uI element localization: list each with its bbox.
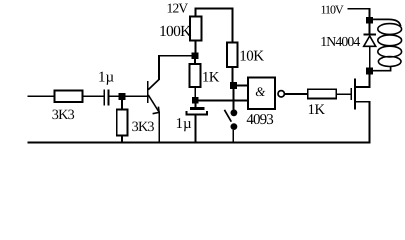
relay coil loop 1 — [378, 24, 402, 35]
svg-text:&: & — [255, 84, 266, 99]
node C junction dot — [230, 82, 237, 89]
wire 10K to node C — [232, 67, 234, 83]
wire node E to diode cathode — [369, 24, 371, 35]
svg-text:10K: 10K — [239, 49, 264, 65]
wire node C down to switch — [233, 89, 235, 110]
wire collector up — [158, 55, 160, 80]
resistor 3K3 horizontal — [55, 91, 83, 103]
ground rail bottom — [28, 142, 371, 144]
wire node B to 1K — [194, 59, 196, 64]
wire down to node E — [369, 9, 371, 20]
MOSFET Q2 gate bar — [350, 88, 352, 100]
svg-text:3K3: 3K3 — [52, 107, 75, 123]
diode D1 triangle — [364, 36, 376, 46]
wire capacitor to base — [110, 95, 148, 97]
wire drain up to relay — [369, 71, 371, 87]
NAND gate U1 4093 body — [248, 77, 275, 109]
wire 3K3v to rail — [121, 136, 123, 143]
wire 12V supply rail — [195, 8, 234, 10]
transistor Q1 collector — [148, 79, 159, 89]
relay coil exit wire — [372, 66, 391, 71]
MOSFET Q2 drain tap — [355, 86, 370, 88]
relay coil loop 3 — [378, 46, 402, 57]
switch S1 lever — [224, 110, 231, 122]
capacitor C2 bottom cup plate — [187, 111, 207, 115]
NAND output inverter bubble — [278, 91, 284, 97]
svg-text:100K: 100K — [159, 23, 192, 40]
wire switch to rail — [232, 130, 234, 143]
wire 1K to node D — [194, 87, 196, 98]
resistor 100K — [190, 17, 202, 41]
wire 12V corner down to 10K — [232, 9, 234, 43]
svg-text:12V: 12V — [167, 0, 189, 15]
wire node C to gate input 1 — [234, 85, 249, 87]
wire 1K to MOSFET gate — [336, 93, 352, 95]
svg-text:1K: 1K — [202, 69, 220, 85]
wire node D to gate input 2 — [195, 99, 248, 101]
relay coil loop 4 — [378, 57, 401, 67]
wire node D to capacitor C2 — [195, 104, 197, 108]
node B junction dot — [192, 52, 199, 59]
wire source down to rail — [369, 102, 371, 144]
svg-text:1µ: 1µ — [176, 116, 193, 132]
wire 110V to relay — [348, 8, 371, 10]
capacitor C2 1u top plate — [190, 107, 204, 110]
diode D1 1N4004 cathode bar — [364, 34, 377, 36]
wire node A down — [121, 99, 123, 110]
wire 3K3 to capacitor — [83, 95, 104, 97]
svg-text:110V: 110V — [321, 3, 345, 17]
switch S1 top contact — [231, 109, 238, 116]
wire gate output to 1K — [285, 93, 308, 95]
MOSFET Q2 source tap — [355, 101, 370, 103]
relay coil loop 2 — [378, 35, 402, 46]
resistor 1K vertical — [190, 64, 201, 87]
transistor Q1 base bar — [147, 81, 149, 103]
svg-text:1N4004: 1N4004 — [320, 34, 360, 49]
capacitor C1 1u plates — [103, 90, 109, 106]
svg-text:1µ: 1µ — [98, 70, 115, 86]
wire C2 to rail — [195, 115, 197, 142]
wire 100K to node B — [195, 41, 197, 54]
wire 12V to 100K — [195, 9, 197, 17]
node E junction dot — [366, 17, 373, 24]
MOSFET Q2 channel bar — [354, 79, 356, 110]
svg-text:1K: 1K — [308, 102, 326, 118]
node A junction dot — [119, 93, 126, 100]
svg-text:3K3: 3K3 — [132, 119, 155, 135]
svg-text:4093: 4093 — [246, 112, 273, 128]
resistor 10K — [227, 43, 238, 68]
switch S1 bottom contact — [231, 123, 238, 130]
node F junction dot — [366, 68, 373, 75]
wire emitter down to rail — [158, 112, 160, 143]
node D junction dot — [192, 97, 199, 104]
wire input line — [28, 95, 55, 97]
relay coil K1 entry wire — [370, 19, 401, 26]
wire diode anode to node F — [369, 46, 371, 71]
resistor 1K gate drive — [308, 89, 337, 98]
wire collector to node B — [158, 55, 195, 57]
resistor 3K3 vertical — [117, 110, 128, 136]
transistor Q1 emitter with arrow — [148, 95, 159, 114]
